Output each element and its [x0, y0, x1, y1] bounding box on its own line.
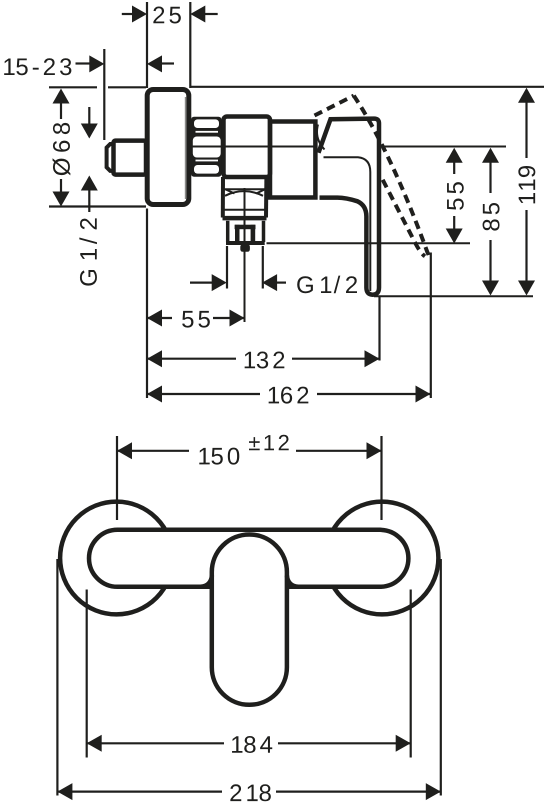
dashed lever near hub: [314, 130, 318, 144]
outlet lower section: [226, 221, 230, 242]
extension line from wall face: [146, 209, 148, 399]
dashed lever raised top edge: [315, 96, 354, 116]
centerline through body: [191, 146, 315, 148]
dim 25 arrow left: [122, 13, 134, 15]
outlet thin line: [225, 188, 267, 190]
lever outline: [319, 119, 380, 295]
lever inner line: [324, 157, 371, 291]
bottom reference line of escutcheon y=206.5: [49, 205, 146, 207]
escutcheon side view: [147, 90, 189, 205]
dim 25 arrow right: [203, 13, 217, 15]
dim G1/2 outlet: [190, 282, 213, 284]
dashed lever outer edge: [354, 96, 429, 258]
reference line y=243.5: [267, 242, 471, 244]
inlet pipe end: [107, 144, 114, 171]
dim 15-23 extension line: [103, 49, 105, 140]
union nut threads: [191, 117, 222, 177]
outlet dome arc: [225, 191, 263, 196]
dim Ø68 column: [53, 89, 70, 104]
dim 55 horizontal: [147, 310, 162, 327]
extension lines 218: [56, 559, 58, 796]
text G1/2 inlet rotated: [79, 218, 97, 285]
fillet right: [287, 576, 298, 587]
reference line y=296: [374, 295, 533, 297]
dim G1/2 inlet column: [88, 107, 90, 127]
text +-12 superscript: [249, 435, 289, 450]
text 218: [230, 784, 271, 801]
text 55 horizontal: [182, 311, 210, 328]
text 15-23: [4, 58, 71, 75]
fillet left: [201, 576, 212, 587]
dim 150 arrows: [117, 442, 132, 459]
dim 85 vertical column: [482, 148, 499, 163]
dim 218: [57, 783, 72, 800]
right escutcheon circle: [326, 502, 439, 615]
reference line y=146.5 right: [383, 146, 506, 148]
text 85 vertical: [483, 203, 500, 231]
outlet hex nut: [235, 225, 256, 252]
inlet nut: [114, 141, 147, 175]
outlet centerline: [244, 188, 246, 322]
dim 25 extension line left: [146, 2, 148, 88]
text 150: [199, 448, 239, 465]
dim 162: [147, 386, 162, 403]
text 119 vertical: [518, 166, 535, 203]
dim 150 extension lines: [116, 436, 118, 520]
left escutcheon circle: [60, 502, 173, 615]
outlet bottom band: [223, 216, 267, 221]
outlet thin line 2: [225, 209, 266, 211]
dim 25 extension line right: [189, 2, 191, 88]
text 55 vertical: [447, 182, 464, 210]
text 162: [269, 387, 309, 404]
extension line from dashed lever tip: [430, 253, 432, 399]
extension lines 184: [86, 590, 88, 758]
text 184: [232, 736, 272, 753]
dashed lever inner edge: [383, 180, 425, 257]
cartridge pill front view: [212, 535, 287, 705]
dim 15-23 arrow left-pointing: [147, 55, 162, 72]
text 132: [245, 352, 285, 369]
dim 119 vertical column: [518, 88, 535, 103]
top reference line y=87: [49, 86, 97, 88]
handle hub: [270, 122, 315, 198]
dim 15-23 arrow right-pointing: [76, 62, 92, 64]
body bar front view: [89, 530, 408, 587]
extension line from lever tip: [378, 297, 380, 361]
escutcheon inner shading line: [185, 97, 187, 199]
outlet plug: [240, 244, 250, 252]
text O68 rotated: [53, 123, 71, 176]
lever pivot arc: [317, 125, 325, 150]
text 25: [153, 7, 181, 24]
dim 132: [147, 350, 162, 367]
outlet section sides: [221, 177, 225, 218]
dim 184: [87, 735, 102, 752]
dim 55 vertical column: [446, 148, 463, 163]
outlet corner diagonals: [226, 189, 265, 193]
valve body: [224, 117, 271, 178]
text G1/2 outlet: [297, 276, 357, 294]
